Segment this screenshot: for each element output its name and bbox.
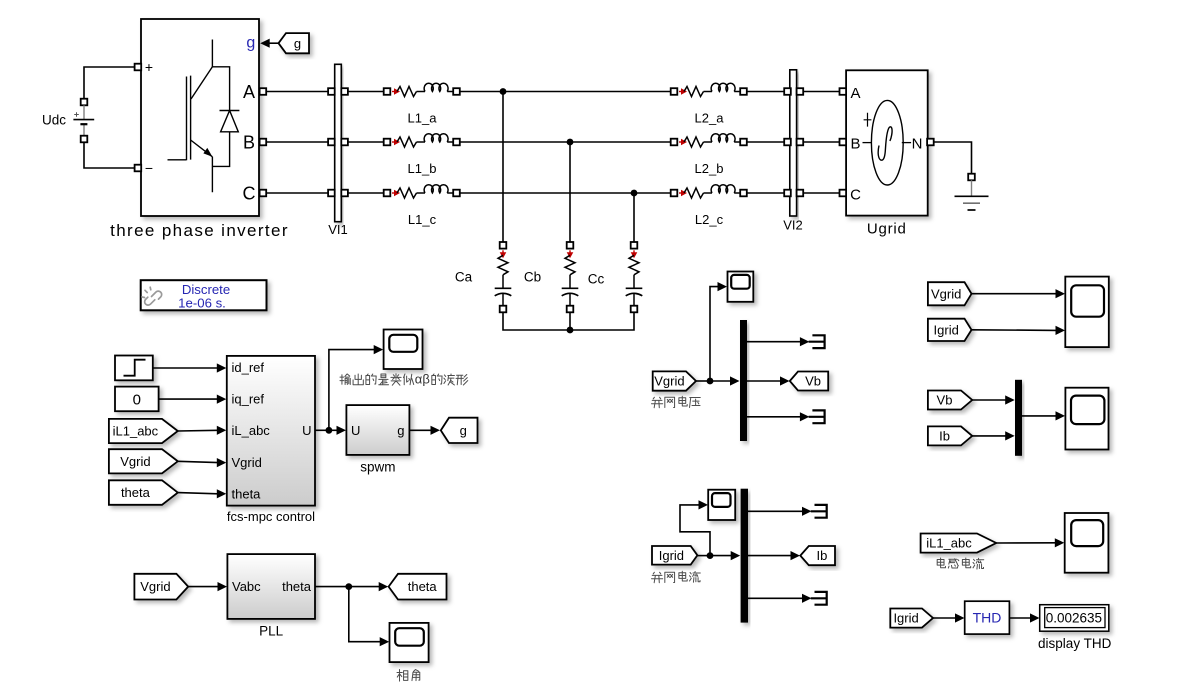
svg-text:0.002635: 0.002635 [1046,610,1102,625]
svg-text:Igrid: Igrid [659,548,684,563]
svg-text:Vb: Vb [937,393,953,408]
svg-text:L1_c: L1_c [408,212,437,227]
svg-text:spwm: spwm [360,460,395,475]
svg-text:Vgrid: Vgrid [140,579,170,594]
svg-text:Ib: Ib [816,548,827,563]
svg-text:A: A [243,82,255,102]
svg-text:Vgrid: Vgrid [232,455,262,470]
svg-text:iq_ref: iq_ref [232,392,265,407]
svg-text:C: C [243,183,256,203]
svg-text:Ugrid: Ugrid [867,221,907,238]
svg-text:B: B [243,132,255,152]
svg-text:Vgrid: Vgrid [654,374,684,389]
svg-text:+: + [145,59,153,75]
svg-text:fcs-mpc control: fcs-mpc control [227,509,315,524]
svg-text:Ib: Ib [939,428,950,443]
svg-text:Cb: Cb [524,270,541,285]
svg-text:theta: theta [408,579,438,594]
svg-text:VI2: VI2 [783,218,803,233]
svg-text:U: U [302,423,311,438]
svg-text:Igrid: Igrid [934,322,959,337]
svg-text:theta: theta [121,485,151,500]
svg-text:g: g [246,35,255,52]
svg-text:Udc: Udc [42,113,66,128]
svg-text:THD: THD [973,610,1002,626]
svg-text:B: B [850,135,860,152]
svg-text:iL_abc: iL_abc [232,423,271,438]
svg-text:display THD: display THD [1038,636,1112,651]
svg-text:iL1_abc: iL1_abc [113,424,159,439]
svg-text:αβ: αβ [415,372,430,387]
svg-text:Vb: Vb [805,374,821,389]
svg-text:L2_b: L2_b [695,161,724,176]
svg-text:0: 0 [133,392,141,409]
svg-text:g: g [397,423,404,438]
svg-text:L1_a: L1_a [408,111,438,126]
svg-text:iL1_abc: iL1_abc [926,536,972,551]
svg-text:theta: theta [232,486,262,501]
svg-text:g: g [294,36,301,51]
svg-text:Ca: Ca [455,270,473,285]
svg-text:Cc: Cc [588,272,605,287]
svg-text:Vgrid: Vgrid [120,454,150,469]
svg-text:U: U [351,423,360,438]
svg-text:VI1: VI1 [328,222,348,237]
svg-text:L1_b: L1_b [408,161,437,176]
svg-text:Igrid: Igrid [893,611,918,626]
svg-text:−: − [145,160,153,176]
svg-text:three phase inverter: three phase inverter [110,221,289,240]
svg-text:1e-06 s.: 1e-06 s. [178,296,226,311]
svg-text:L2_a: L2_a [695,111,725,126]
svg-text:L2_c: L2_c [695,212,724,227]
svg-text:Vabc: Vabc [232,579,261,594]
svg-text:g: g [460,423,467,438]
svg-text:theta: theta [282,579,312,594]
svg-text:Vgrid: Vgrid [931,286,961,301]
svg-text:id_ref: id_ref [232,360,265,375]
svg-text:PLL: PLL [259,624,284,639]
svg-text:A: A [850,85,860,102]
svg-text:C: C [850,186,861,203]
svg-text:N: N [912,135,923,152]
